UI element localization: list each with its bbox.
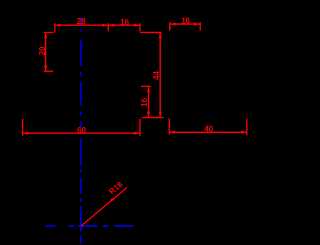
svg-text:16: 16 <box>181 17 190 26</box>
svg-text:28: 28 <box>77 17 86 26</box>
svg-text:16: 16 <box>140 98 149 107</box>
svg-text:60: 60 <box>77 126 86 135</box>
svg-text:20: 20 <box>38 46 47 55</box>
svg-text:40: 40 <box>204 125 213 134</box>
svg-text:16: 16 <box>120 18 129 27</box>
svg-text:44: 44 <box>152 71 161 80</box>
